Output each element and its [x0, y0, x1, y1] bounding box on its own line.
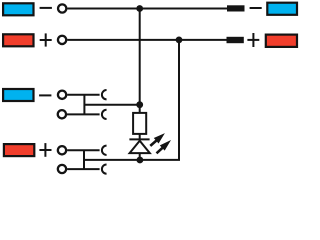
junction: plus group line joins LED branch	[137, 157, 144, 164]
plug contact arc (plus group, upper)	[102, 146, 107, 155]
wire: minus group upper contact	[67, 94, 99, 96]
junction: minus rail to branch A	[136, 5, 143, 12]
color code marker blue (upper right)	[267, 3, 297, 15]
wire: minus group bus	[83, 95, 85, 115]
terminal circle (upper minus feed)	[58, 4, 66, 12]
wire: LED anode to bottom line	[139, 153, 141, 160]
color code marker blue (lower left group)	[3, 89, 33, 101]
minus sign (lower left group)	[39, 94, 51, 96]
wire: branch A vertical (minus rail to resistor)	[139, 9, 141, 113]
plus sign (upper left)	[40, 33, 52, 46]
minus sign (upper left)	[40, 7, 52, 9]
wire: plus group lower contact	[67, 168, 100, 170]
junction: minus group joins branch A	[136, 101, 143, 108]
color code marker red (upper right)	[266, 35, 297, 47]
plug contact arc (minus group, lower)	[102, 110, 107, 119]
junction: plus rail to branch B	[176, 37, 183, 44]
wire: minus rail	[67, 8, 227, 10]
wire: resistor to LED cathode	[139, 134, 141, 140]
LED D1 triangle (anode, pointing up)	[130, 141, 150, 153]
plus sign (lower left group)	[39, 143, 51, 157]
LED D1 cathode bar	[129, 138, 149, 140]
terminal circle (minus group, lower)	[58, 110, 66, 118]
minus sign (upper right)	[250, 7, 262, 9]
color code marker red (lower left group)	[4, 144, 34, 156]
plug contact arc (minus group, upper)	[102, 90, 107, 99]
LED light emission arrow 2	[154, 137, 173, 156]
wire: minus group output to branch A	[84, 104, 139, 106]
resistor R	[133, 113, 146, 134]
color code marker red (plus feed, left)	[3, 34, 33, 46]
fuse/ferrule block (minus rail right)	[227, 5, 245, 11]
wire: plus group upper contact	[67, 149, 100, 151]
terminal circle (minus group, upper)	[58, 91, 66, 99]
wire: plus rail	[67, 39, 227, 41]
LED light emission arrow 1	[148, 130, 167, 148]
terminal circle (upper plus feed)	[58, 36, 66, 44]
plug contact arc (plus group, lower)	[102, 164, 107, 173]
wire: bottom line and branch B up to plus rail	[84, 40, 179, 160]
fuse/ferrule block (plus rail right)	[227, 37, 244, 43]
wire: minus group lower contact	[67, 113, 100, 115]
wire: plus group bus	[83, 150, 85, 169]
color code marker blue (upper left, minus feed)	[3, 3, 33, 15]
terminal circle (plus group, upper)	[58, 146, 66, 154]
terminal circle (plus group, lower)	[58, 165, 66, 173]
plus sign (upper right)	[247, 33, 259, 47]
